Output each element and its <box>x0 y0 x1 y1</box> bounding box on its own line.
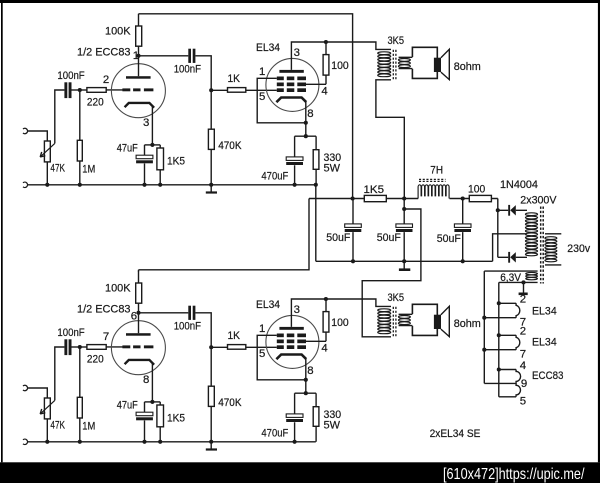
svg-text:3: 3 <box>294 47 300 59</box>
capacitor 100nF input <box>64 339 67 355</box>
wire 220 to triode grid <box>106 89 122 91</box>
wire jack to volume pot <box>28 131 48 141</box>
wires secondary to speaker <box>399 57 413 68</box>
PSU ground bus <box>316 260 493 262</box>
node screen feed <box>324 40 328 44</box>
node cathode RC top <box>304 134 308 138</box>
svg-text:2xEL34 SE: 2xEL34 SE <box>430 428 481 440</box>
resistor 330 5W <box>313 407 319 427</box>
EL34 cathode <box>276 98 306 103</box>
capacitor 50uF first <box>345 224 362 228</box>
node B+ at 352.6 <box>351 196 355 200</box>
heater EL34 no.2 pins <box>484 335 516 349</box>
svg-text:[610x472]https://upic.me/: [610x472]https://upic.me/ <box>443 466 585 483</box>
resistor 470K <box>208 386 214 406</box>
heater EL34 no.1 pins <box>484 303 516 317</box>
heater bus right <box>498 282 500 396</box>
choke 7H <box>418 185 449 199</box>
svg-text:3: 3 <box>294 304 300 316</box>
svg-text:220: 220 <box>87 97 104 109</box>
node grid EL34 <box>209 345 213 349</box>
svg-text:1M: 1M <box>82 164 95 176</box>
speaker cone <box>441 306 449 336</box>
wire cap to grid node <box>72 346 87 348</box>
svg-text:1: 1 <box>259 323 265 335</box>
resistor 100 PSU <box>469 195 491 201</box>
resistor 470K <box>208 129 214 149</box>
wire anode to coupling cap <box>139 312 189 314</box>
resistor 100K <box>136 26 142 46</box>
transformer 3K5 core <box>392 307 394 337</box>
svg-text:4: 4 <box>520 360 526 372</box>
capacitor 47uF <box>136 412 153 416</box>
tube 1/2 ECC83 triode <box>111 64 165 118</box>
diode D1 1N4004 <box>498 209 527 211</box>
ground symbol PSU <box>403 261 405 268</box>
resistor 1K <box>228 345 246 350</box>
wires secondary to speaker <box>399 314 413 325</box>
svg-text:EL34: EL34 <box>256 299 280 311</box>
EL34 cathode <box>276 355 306 360</box>
wire jack to volume pot <box>28 388 48 398</box>
potentiometer 47K <box>44 141 50 162</box>
svg-text:ECC83: ECC83 <box>532 370 564 382</box>
svg-text:5: 5 <box>259 348 265 360</box>
svg-text:7: 7 <box>103 331 109 343</box>
svg-text:100: 100 <box>331 317 348 329</box>
svg-text:8ohm: 8ohm <box>454 318 481 330</box>
EL34 anode wire to OPT <box>291 42 391 70</box>
wire B+ top rail to PSU <box>139 14 353 199</box>
svg-text:3K5: 3K5 <box>388 35 405 47</box>
wire anode to coupling cap <box>139 55 189 57</box>
svg-text:470uF: 470uF <box>261 171 288 183</box>
svg-text:8: 8 <box>143 374 149 386</box>
svg-text:5: 5 <box>259 91 265 103</box>
transformer 3K5 primary <box>378 52 391 55</box>
svg-text:470uF: 470uF <box>261 428 288 440</box>
wire channel ground to PSU ground bus <box>315 185 317 261</box>
wire B+ feed to channel 2 OPT <box>362 209 421 337</box>
svg-text:EL34: EL34 <box>532 336 557 348</box>
svg-text:230v: 230v <box>567 243 590 255</box>
resistor 1K5 PSU <box>364 195 386 201</box>
tube 1/2 ECC83 triode <box>111 321 165 375</box>
svg-text:2: 2 <box>520 326 526 338</box>
wire B+ node to rectifier <box>497 199 499 258</box>
svg-text:2x300V: 2x300V <box>520 194 557 206</box>
power transformer HV secondary 2x300V <box>525 213 537 216</box>
resistor 220 <box>87 88 106 93</box>
svg-text:7: 7 <box>520 348 526 360</box>
speaker frame <box>412 47 437 78</box>
resistor 1M <box>77 397 82 418</box>
svg-text:220: 220 <box>87 354 104 366</box>
svg-text:1K5: 1K5 <box>167 156 185 168</box>
triode anode <box>126 333 151 336</box>
node anode <box>136 54 140 58</box>
capacitor 47uF <box>136 155 153 159</box>
svg-text:100: 100 <box>468 183 485 195</box>
svg-text:EL34: EL34 <box>532 306 557 318</box>
ground jack <box>23 439 28 444</box>
node grid input <box>78 345 82 349</box>
EL34 cathode lead pin 8 <box>305 102 307 137</box>
resistor 1K5 cathode <box>157 405 164 427</box>
resistor 100 screen <box>323 55 329 76</box>
capacitor 470uF <box>286 414 303 418</box>
svg-text:1N4004: 1N4004 <box>500 179 538 191</box>
wire pot wiper to input cap <box>55 90 65 143</box>
input jack J <box>23 128 28 133</box>
wire B+ feed to channel 2 <box>139 199 310 272</box>
node screen feed <box>324 297 328 301</box>
input jack J <box>23 385 28 390</box>
svg-text:47K: 47K <box>50 162 65 174</box>
svg-text:8: 8 <box>307 365 313 377</box>
transformer 3K5 secondary <box>398 59 410 62</box>
wire 220 to triode grid <box>106 346 122 348</box>
svg-text:1/2 ECC83: 1/2 ECC83 <box>77 304 131 316</box>
svg-text:1K5: 1K5 <box>167 413 185 425</box>
speaker frame <box>412 304 437 335</box>
heater bus left <box>483 271 485 383</box>
bus junction dots <box>45 440 49 444</box>
svg-text:1K5: 1K5 <box>364 184 385 196</box>
svg-text:3K5: 3K5 <box>388 292 405 304</box>
resistor 100 screen <box>323 312 329 333</box>
resistor 1K5 cathode <box>157 148 164 170</box>
node B+ at 462.7 <box>461 196 465 200</box>
svg-text:3: 3 <box>143 117 149 129</box>
triode cathode <box>125 103 155 108</box>
EL34 grid rows <box>277 334 284 338</box>
svg-text:4: 4 <box>321 86 327 98</box>
svg-text:5W: 5W <box>324 419 341 431</box>
svg-text:100K: 100K <box>105 282 131 294</box>
diode D2 1N4004 <box>498 256 527 258</box>
power transformer primary 230v <box>545 237 557 240</box>
transformer 3K5 secondary <box>398 316 410 319</box>
triode grid dashes <box>122 88 130 91</box>
caption bar <box>0 462 600 483</box>
resistor 100K <box>136 283 142 303</box>
node B+ at 404.2 <box>402 196 406 200</box>
choke core dashes <box>419 178 446 180</box>
potentiometer 47K <box>44 398 50 419</box>
svg-text:50uF: 50uF <box>437 233 461 245</box>
heater ECC83 pins <box>484 370 516 397</box>
heater winding 6.3V <box>526 272 538 274</box>
transformer 3K5 core <box>392 50 394 80</box>
wire cap to grid node <box>72 89 87 91</box>
svg-text:8ohm: 8ohm <box>454 61 481 73</box>
resistor 1K <box>228 88 246 93</box>
triode anode <box>126 76 151 79</box>
svg-text:100K: 100K <box>105 25 131 37</box>
triode grid dashes <box>122 345 130 348</box>
svg-text:47uF: 47uF <box>117 400 138 412</box>
wire pot bottom to ground bus <box>46 162 48 185</box>
node anode <box>136 311 140 315</box>
power transformer core <box>540 207 542 284</box>
EL34 anode <box>279 327 303 330</box>
speaker cone <box>441 49 449 79</box>
svg-text:5: 5 <box>520 395 526 407</box>
capacitor 50uF third <box>454 224 471 228</box>
svg-text:50uF: 50uF <box>377 232 401 244</box>
wire coupling cap to EL34 grid <box>195 56 227 91</box>
transformer 3K5 primary <box>378 309 391 312</box>
svg-text:100nF: 100nF <box>57 70 84 82</box>
svg-text:100nF: 100nF <box>57 327 84 339</box>
ground bus wire <box>28 441 316 443</box>
wire coupling cap to EL34 grid <box>195 313 227 348</box>
resistor 1M <box>77 140 82 161</box>
node cathode RC top <box>304 391 308 395</box>
capacitor 100nF input <box>64 82 67 98</box>
EL34 grid bracket pins 1,5 <box>257 78 306 123</box>
capacitor 470uF <box>286 157 303 161</box>
B+ rail <box>309 198 498 200</box>
ground bus wire <box>28 184 316 186</box>
tube EL34 <box>266 315 319 368</box>
wire OPT primary return to B+ rail <box>376 80 404 199</box>
svg-text:1K: 1K <box>228 73 241 85</box>
svg-text:100: 100 <box>331 60 348 72</box>
EL34 anode wire to OPT <box>291 299 391 327</box>
svg-text:470K: 470K <box>218 397 242 409</box>
svg-text:2: 2 <box>103 74 109 86</box>
bus junction dots <box>45 183 49 187</box>
svg-text:1/2 ECC83: 1/2 ECC83 <box>77 47 131 59</box>
node 470K at bus / ground <box>209 440 213 444</box>
wire pot bottom to ground bus <box>46 419 48 442</box>
svg-text:50uF: 50uF <box>326 232 350 244</box>
svg-text:4: 4 <box>321 343 327 355</box>
svg-text:1: 1 <box>133 50 139 62</box>
svg-text:6,3V: 6,3V <box>500 272 521 284</box>
EL34 grid rows <box>277 77 284 81</box>
border frame <box>0 0 600 3</box>
node grid input <box>78 88 82 92</box>
capacitor 50uF second <box>396 224 413 228</box>
svg-text:5W: 5W <box>324 162 341 174</box>
svg-text:47K: 47K <box>50 419 65 431</box>
svg-text:2: 2 <box>520 294 526 306</box>
node cathode junction <box>150 143 154 147</box>
svg-text:7H: 7H <box>430 165 443 177</box>
triode cathode <box>125 360 155 365</box>
node 470K at bus / ground <box>209 183 213 187</box>
svg-text:9: 9 <box>521 378 527 390</box>
EL34 grid bracket pins 1,5 <box>257 335 306 380</box>
svg-text:8: 8 <box>307 108 313 120</box>
wire pot wiper to input cap <box>55 347 65 400</box>
svg-text:470K: 470K <box>218 140 242 152</box>
tube EL34 <box>266 58 319 111</box>
svg-text:47uF: 47uF <box>117 143 138 155</box>
capacitor 100nF coupling <box>188 49 191 63</box>
speaker magnet <box>434 58 441 72</box>
center tap to ground <box>493 234 527 261</box>
EL34 cathode lead pin 8 <box>305 359 307 394</box>
svg-text:100nF: 100nF <box>174 64 201 76</box>
node cathode junction <box>150 400 154 404</box>
node grid EL34 <box>209 88 213 92</box>
svg-text:1M: 1M <box>82 421 95 433</box>
heater ground <box>521 280 525 284</box>
speaker magnet <box>434 315 441 329</box>
svg-text:EL34: EL34 <box>256 42 280 54</box>
svg-text:6: 6 <box>131 311 137 323</box>
svg-text:1K: 1K <box>228 330 241 342</box>
svg-text:100nF: 100nF <box>174 321 201 333</box>
resistor 220 <box>87 345 106 350</box>
ground jack <box>23 182 28 187</box>
capacitor 100nF coupling <box>188 306 191 320</box>
EL34 anode <box>279 70 303 73</box>
resistor 330 5W <box>313 150 319 170</box>
svg-text:1: 1 <box>259 66 265 78</box>
